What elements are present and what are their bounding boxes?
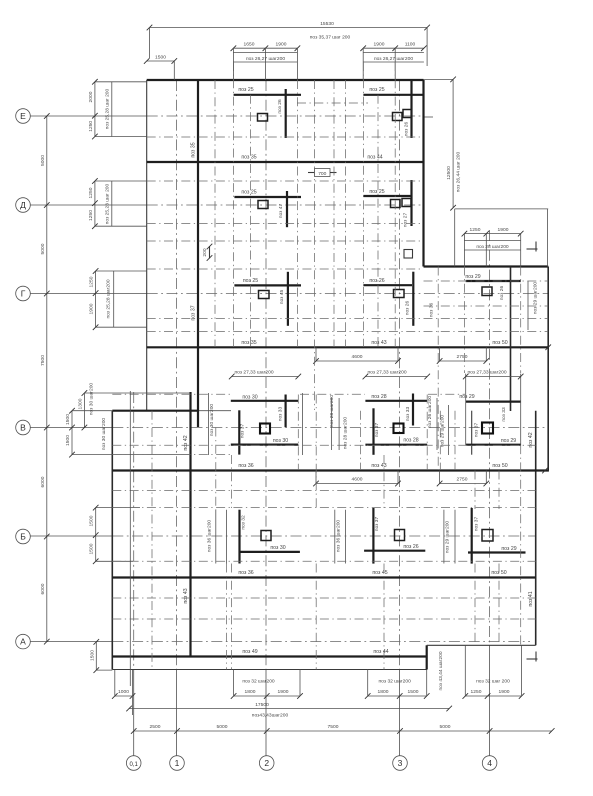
dim 1250/1250 row Д — [88, 178, 147, 229]
wall left edge middle block — [111, 411, 113, 670]
wall right edge x548 — [547, 267, 549, 471]
svg-text:поз 36: поз 36 — [238, 570, 253, 576]
svg-text:поз 35,37 шаг 200: поз 35,37 шаг 200 — [310, 35, 351, 41]
svg-text:поз 26: поз 26 — [369, 278, 384, 284]
svg-text:6000: 6000 — [40, 476, 46, 487]
mark поз36 шаг200 Б mid flank — [335, 510, 346, 564]
svg-text:поз 26: поз 26 — [405, 301, 411, 316]
wall top edge right wing — [424, 265, 549, 267]
mark поз27,33 шаг200 В right — [463, 370, 524, 380]
svg-text:поз 25: поз 25 — [369, 189, 384, 195]
svg-text:7500: 7500 — [328, 724, 339, 730]
rebar mark поз29 row Г right — [465, 274, 520, 281]
rebar mark поз30 row В left upper — [231, 394, 298, 401]
dim 12500 right vertical — [424, 77, 462, 211]
svg-text:1800: 1800 — [245, 689, 256, 695]
svg-text:Б: Б — [20, 532, 26, 542]
wall top edge upper block — [147, 79, 424, 81]
dim 1300 row В upper — [78, 383, 191, 431]
svg-text:1650: 1650 — [244, 42, 255, 48]
dim 1500 row А — [89, 639, 112, 673]
rotated mark поз43,44 шаг200 bottom step — [438, 651, 444, 690]
column line поз42/41 right x535.7 labels — [528, 432, 534, 606]
rebar mark поз28 row В mid lower — [365, 438, 427, 445]
dim 4600/2750 lower row y483.5 — [313, 471, 489, 487]
axis line В — [30, 427, 546, 429]
axis circle Е — [16, 109, 31, 124]
svg-text:поз 30: поз 30 — [242, 394, 257, 400]
axis circle 3 — [393, 756, 408, 771]
svg-text:поз 50: поз 50 — [492, 463, 507, 469]
svg-text:поз 27,33 шаг200: поз 27,33 шаг200 — [467, 370, 506, 376]
svg-text:поз 33: поз 33 — [501, 407, 507, 422]
svg-text:поз 26: поз 26 — [277, 99, 283, 114]
svg-text:поз 25,28 шаг 200: поз 25,28 шаг 200 — [105, 183, 111, 224]
svg-text:1900: 1900 — [374, 42, 385, 48]
svg-text:поз 50: поз 50 — [492, 340, 507, 346]
wall bottom edge right part — [427, 644, 536, 646]
column squares pair row Е right — [393, 110, 412, 121]
svg-text:поз 29: поз 29 — [501, 546, 516, 552]
dim 15530 overall top — [147, 21, 430, 66]
rebar L-mark поз29 row Б right — [468, 508, 526, 564]
svg-text:5000: 5000 — [40, 155, 46, 166]
svg-text:поз 35: поз 35 — [241, 155, 256, 161]
axis line 1 vertical — [176, 80, 178, 756]
svg-text:17500: 17500 — [255, 702, 269, 708]
svg-text:2750: 2750 — [457, 354, 468, 360]
rebar L-mark поз26 row Б mid — [364, 508, 425, 564]
mark поз30 шаг200 В left flank — [209, 393, 438, 455]
svg-text:1900: 1900 — [89, 303, 95, 314]
axis circle Б — [16, 529, 31, 544]
svg-text:поз 25: поз 25 — [369, 87, 384, 93]
stub column line row Д right x411.5 — [403, 180, 412, 227]
svg-text:7500: 7500 — [40, 355, 46, 366]
svg-text:поз 29: поз 29 — [459, 394, 474, 400]
svg-text:4600: 4600 — [352, 477, 363, 483]
svg-text:поз 30: поз 30 — [270, 545, 285, 551]
svg-text:15530: 15530 — [320, 21, 334, 27]
svg-text:поз 44: поз 44 — [373, 649, 388, 655]
svg-text:5000: 5000 — [217, 724, 228, 730]
dim 1500/1500 row В — [65, 408, 190, 458]
svg-text:поз 45: поз 45 — [372, 570, 387, 576]
wall bottom edge left part — [112, 669, 426, 671]
svg-text:1500: 1500 — [408, 689, 419, 695]
stub column line В left right x285.6 — [278, 395, 286, 428]
mark поз29 шаг200 Г wing right flank — [527, 281, 529, 330]
axis line Г — [30, 293, 548, 295]
svg-text:поз 28 шаг200: поз 28 шаг200 — [343, 417, 349, 450]
svg-text:1500: 1500 — [89, 515, 95, 526]
svg-text:12500: 12500 — [446, 166, 452, 180]
stub column line В right x471.7 — [472, 411, 480, 455]
dim 1500 top small — [144, 55, 177, 81]
column line x510.5 right wing — [510, 267, 512, 412]
column square row Б mid — [395, 530, 405, 541]
svg-text:поз 27,33 шаг200: поз 27,33 шаг200 — [367, 370, 406, 376]
dim box поз26,27 шаг200 right — [363, 48, 424, 80]
svg-text:поз 36 шаг200: поз 36 шаг200 — [336, 520, 342, 553]
beam поз35/поз44 y162 — [147, 155, 424, 163]
svg-text:поз 43: поз 43 — [183, 588, 189, 603]
mark поз27,33 шаг200 В left — [229, 370, 301, 380]
svg-text:поз 29 шаг200: поз 29 шаг200 — [533, 282, 539, 315]
svg-text:поз 25,28 шаг200: поз 25,28 шаг200 — [106, 279, 112, 318]
svg-text:1250: 1250 — [470, 227, 481, 233]
svg-text:А: А — [20, 637, 26, 647]
beam поз49/поз44 y656 — [112, 649, 426, 657]
dim 17500 поз43,43 шаг200 — [126, 702, 452, 719]
svg-text:4600: 4600 — [352, 354, 363, 360]
wire dash grid horizontal upper block — [147, 103, 549, 332]
mark поз26 шаг200 В mid right — [427, 396, 433, 429]
axis line 0,1 vertical — [133, 392, 135, 756]
wire dash grid horizontal right wing — [424, 281, 549, 306]
dim 1500/1500 row Б — [89, 505, 141, 564]
svg-text:5000: 5000 — [40, 243, 46, 254]
wire dash grid horizontal middle block — [112, 394, 535, 619]
column square row В left — [260, 424, 270, 434]
rebar mark поз29 row В right upper — [459, 394, 520, 402]
svg-text:поз 37: поз 37 — [374, 423, 380, 438]
svg-text:поз 44: поз 44 — [367, 155, 382, 161]
svg-text:поз 29: поз 29 — [465, 274, 480, 280]
stub column line В mid right x413 — [405, 394, 413, 426]
svg-text:поз 33: поз 33 — [278, 407, 284, 422]
svg-text:поз 47: поз 47 — [278, 204, 284, 219]
axis circle 4 — [482, 756, 497, 771]
svg-text:поз 36 шаг200: поз 36 шаг200 — [207, 520, 213, 553]
svg-text:2750: 2750 — [457, 477, 468, 483]
svg-text:поз 26: поз 26 — [499, 286, 505, 301]
svg-text:поз 42: поз 42 — [183, 435, 189, 450]
lone column square x404 y250 — [404, 250, 413, 259]
svg-text:1500: 1500 — [155, 55, 166, 61]
column line поз35/37 x198 — [191, 80, 199, 427]
column square row Б right — [482, 530, 493, 542]
svg-text:700: 700 — [318, 171, 326, 177]
svg-text:поз 26: поз 26 — [404, 122, 410, 137]
svg-text:поз 30 шаг200: поз 30 шаг200 — [101, 418, 107, 451]
svg-text:поз 32: поз 32 — [241, 515, 247, 530]
svg-text:поз 43: поз 43 — [371, 463, 386, 469]
svg-text:поз 27,33 шаг200: поз 27,33 шаг200 — [234, 370, 273, 376]
axis circle 2 — [259, 756, 274, 771]
rebar mark поз29 row В right lower — [466, 438, 521, 445]
svg-text:1: 1 — [175, 758, 180, 768]
svg-text:1250: 1250 — [88, 187, 94, 198]
svg-text:1100: 1100 — [405, 42, 416, 48]
wall left edge upper block — [146, 80, 148, 411]
rebar mark поз25 row Д right — [363, 189, 412, 196]
svg-text:поз 41: поз 41 — [528, 591, 534, 606]
column squares pair row Д right — [391, 199, 412, 208]
wall bottom step vertical — [426, 645, 428, 669]
dim 700 box — [308, 169, 337, 178]
rebar mark поз25 row Г left — [234, 278, 301, 285]
dim 1250/1900 right wing group — [462, 227, 524, 236]
svg-text:3: 3 — [398, 758, 403, 768]
axis circle В — [16, 420, 31, 435]
dim 1900/1100 top right group — [360, 42, 426, 52]
svg-text:поз 29: поз 29 — [501, 438, 516, 444]
svg-text:1000: 1000 — [118, 689, 129, 695]
dim box поз26,27 шаг200 left — [233, 48, 297, 80]
svg-text:поз 43,44 шаг200: поз 43,44 шаг200 — [438, 651, 444, 690]
column square row В mid — [394, 424, 404, 434]
svg-text:Д: Д — [20, 200, 26, 210]
axis circle Д — [16, 198, 31, 213]
dim 1000 bottom left — [112, 670, 135, 715]
rebar mark поз25 row Е right — [363, 87, 423, 95]
stub column line В mid x373.5 — [374, 408, 380, 455]
svg-text:1800: 1800 — [378, 689, 389, 695]
stub column line row Е right x411.5 — [404, 80, 412, 138]
svg-text:поз 28: поз 28 — [371, 394, 386, 400]
column line поз42/43 x190.5 — [183, 392, 191, 657]
column square row В right — [482, 407, 507, 433]
svg-text:поз 36: поз 36 — [238, 463, 253, 469]
svg-text:1500: 1500 — [89, 543, 95, 554]
column square row Б left — [261, 531, 271, 541]
svg-text:поз 32 шаг200: поз 32 шаг200 — [242, 679, 275, 685]
column square row Г mid — [394, 290, 405, 298]
svg-text:поз 25: поз 25 — [241, 190, 256, 196]
svg-text:В: В — [20, 423, 26, 433]
wall right edge upper block — [422, 80, 424, 267]
dim group3 1250/1900 bottom — [463, 645, 525, 699]
beam поз36/43/50 y470 — [112, 463, 549, 473]
svg-text:6000: 6000 — [40, 583, 46, 594]
axis circle 0,1 — [126, 756, 141, 771]
axis circle 1 — [170, 756, 185, 771]
svg-text:2000: 2000 — [88, 91, 94, 102]
svg-text:поз 26,44 шаг 200: поз 26,44 шаг 200 — [456, 151, 462, 192]
svg-text:1900: 1900 — [276, 42, 287, 48]
svg-text:поз 32 шаг 200: поз 32 шаг 200 — [476, 679, 510, 685]
wire dash grid vertical right wing — [438, 267, 521, 646]
svg-text:1900: 1900 — [498, 227, 509, 233]
mark поз28 шаг200 В mid left inner — [343, 417, 349, 450]
wall top edge middle block left — [112, 410, 231, 412]
wire dash grid vertical middle block — [130, 391, 499, 686]
svg-text:поз 28 шаг200: поз 28 шаг200 — [329, 395, 335, 428]
dim chain 2500/5000/7500/5000 bottom main — [131, 724, 555, 734]
dim 2000/1250 row Е — [88, 79, 147, 139]
axis line 4 vertical — [489, 230, 491, 756]
svg-text:поз 30: поз 30 — [273, 438, 288, 444]
svg-text:поз 35: поз 35 — [191, 142, 197, 157]
svg-text:поз 36: поз 36 — [429, 303, 435, 318]
stub column line row Г mid x413.3 — [405, 272, 435, 326]
svg-text:поз 30 шаг200: поз 30 шаг200 — [209, 404, 215, 437]
column square row Г right — [482, 282, 539, 315]
column square row Г left — [259, 291, 270, 299]
svg-text:поз 26,27 шаг200: поз 26,27 шаг200 — [374, 56, 413, 62]
mark поз29 шаг200 Б right flank — [444, 510, 455, 564]
svg-text:1250: 1250 — [89, 276, 95, 287]
section mark top right — [527, 242, 538, 252]
svg-text:поз 32 шаг200: поз 32 шаг200 — [379, 679, 412, 685]
axis line Д — [30, 204, 424, 206]
svg-text:4: 4 — [487, 758, 492, 768]
svg-text:поз43,43шаг200: поз43,43шаг200 — [252, 713, 289, 719]
svg-text:поз 43: поз 43 — [371, 340, 386, 346]
svg-text:Г: Г — [21, 289, 26, 299]
dim group1 1800/1900 bottom — [231, 670, 303, 699]
axis line Е — [30, 116, 433, 117]
thin frame В right motif — [466, 374, 521, 446]
axis line А — [30, 641, 530, 643]
column square row Д left — [258, 201, 268, 209]
mark поз36 шаг200 Б left flank — [207, 510, 227, 564]
dim 1250/1900 row Г — [89, 268, 147, 330]
svg-text:поз 26,27 шаг200: поз 26,27 шаг200 — [246, 56, 285, 62]
wire dash grid vertical upper block — [215, 62, 395, 410]
svg-text:1250: 1250 — [471, 689, 482, 695]
svg-text:1500: 1500 — [65, 435, 71, 446]
dim group2 1800/1500 bottom — [365, 670, 430, 699]
svg-text:5000: 5000 — [440, 724, 451, 730]
beam поз36/45/50 y577 — [112, 570, 535, 578]
section mark bottom right — [527, 652, 538, 662]
stub column line row Д left x287 — [278, 191, 287, 227]
svg-text:0,1: 0,1 — [130, 762, 139, 768]
svg-text:2: 2 — [264, 758, 269, 768]
rebar mark поз26 row Г mid — [363, 278, 412, 285]
svg-text:1250: 1250 — [88, 121, 94, 132]
rebar mark поз25 row Е left — [234, 87, 301, 95]
wall right edge x535.7 — [535, 411, 537, 646]
svg-text:поз 37: поз 37 — [474, 517, 480, 532]
dim box поз28 шаг200 right wing — [464, 234, 520, 267]
svg-text:поз 30 шаг200: поз 30 шаг200 — [89, 383, 95, 416]
svg-text:поз 37: поз 37 — [240, 424, 246, 439]
stub column line row Е left x285.7 — [277, 89, 286, 138]
svg-text:1900: 1900 — [499, 689, 510, 695]
svg-text:поз 27: поз 27 — [403, 213, 409, 228]
beam поз35/43/50 y347 — [147, 340, 551, 350]
svg-text:1500: 1500 — [65, 414, 71, 425]
svg-text:поз 37: поз 37 — [474, 423, 480, 438]
svg-text:поз 37: поз 37 — [374, 517, 380, 532]
stub column line В left x239.3 — [239, 410, 245, 454]
mark поз27,33 шаг200 В mid — [363, 370, 430, 380]
svg-text:1500: 1500 — [89, 650, 95, 661]
canopy thin outline right wing — [455, 209, 549, 267]
svg-text:поз 28: поз 28 — [403, 438, 418, 444]
axis line Б — [30, 535, 535, 537]
svg-text:1300: 1300 — [78, 398, 84, 409]
svg-text:поз 28 шаг200: поз 28 шаг200 — [476, 244, 509, 250]
svg-text:поз 29 шаг200: поз 29 шаг200 — [445, 521, 451, 554]
mark поз28 шаг200 В mid left outer — [329, 395, 339, 450]
svg-text:2500: 2500 — [150, 724, 161, 730]
svg-text:поз 26 шаг200: поз 26 шаг200 — [427, 396, 433, 429]
rebar mark поз25 row Д left — [234, 190, 301, 198]
dim 200 small — [202, 244, 212, 261]
svg-text:Е: Е — [20, 111, 26, 121]
axis line 3 vertical — [399, 80, 401, 756]
rebar L-mark поз30 row Б left — [240, 510, 300, 564]
svg-text:200: 200 — [202, 248, 208, 256]
axis circle А — [16, 634, 31, 649]
svg-text:поз 25: поз 25 — [238, 87, 253, 93]
axis line 2 vertical — [265, 80, 267, 756]
dim 1650/1900 top left group — [231, 42, 301, 52]
svg-text:поз 25,28 шаг 200: поз 25,28 шаг 200 — [105, 88, 111, 129]
svg-text:поз 33: поз 33 — [405, 407, 411, 422]
svg-text:поз 37: поз 37 — [191, 305, 197, 320]
svg-text:поз 45: поз 45 — [279, 290, 285, 305]
svg-text:поз 26: поз 26 — [403, 544, 418, 550]
svg-text:поз 35: поз 35 — [241, 340, 256, 346]
stub column line row Г left x287.9 — [279, 272, 288, 326]
mark поз29 шаг200 В right flank — [440, 405, 449, 455]
dim 4600/2750 upper row y361 — [313, 347, 489, 364]
svg-text:1900: 1900 — [278, 689, 289, 695]
svg-text:поз 49: поз 49 — [242, 649, 257, 655]
rebar mark поз28 row В mid upper — [365, 394, 427, 401]
axis circle Г — [16, 286, 31, 301]
dim chain 5000/5000/7500/6000/6000 left main — [40, 113, 50, 644]
svg-text:1250: 1250 — [88, 210, 94, 221]
column square row Е left — [258, 114, 268, 122]
rebar mark поз30 row В left lower — [231, 438, 298, 445]
